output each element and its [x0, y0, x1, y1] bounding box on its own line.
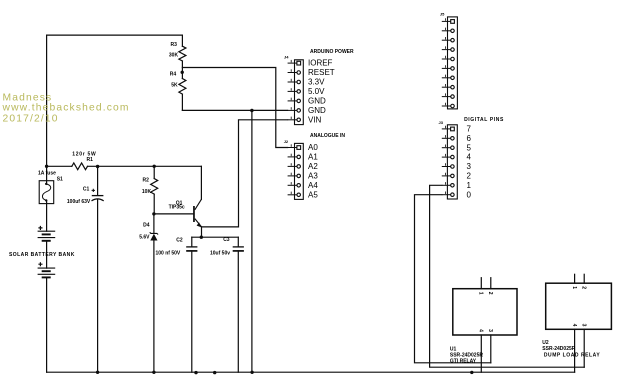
svg-text:C3: C3 [223, 237, 230, 243]
svg-text:2: 2 [581, 286, 587, 289]
svg-text:RESET: RESET [308, 68, 335, 77]
svg-text:GTI RELAY: GTI RELAY [450, 358, 477, 364]
svg-text:J2: J2 [284, 139, 289, 144]
svg-text:0: 0 [467, 190, 472, 199]
svg-text:J5: J5 [440, 12, 445, 17]
svg-text:3: 3 [581, 324, 587, 327]
svg-text:4: 4 [571, 324, 577, 327]
svg-text:C2: C2 [176, 238, 183, 244]
svg-text:A0: A0 [308, 143, 318, 152]
svg-text:7: 7 [467, 125, 472, 134]
svg-text:ANALOGUE IN: ANALOGUE IN [310, 133, 345, 139]
svg-text:4: 4 [478, 329, 484, 332]
svg-text:A4: A4 [308, 181, 318, 190]
svg-text:J4: J4 [284, 55, 289, 60]
svg-text:A1: A1 [308, 153, 318, 162]
svg-text:1: 1 [467, 181, 472, 190]
svg-text:DIGITAL PINS: DIGITAL PINS [464, 117, 504, 123]
svg-text:DUMP LOAD RELAY: DUMP LOAD RELAY [544, 352, 600, 358]
svg-text:R3: R3 [171, 42, 178, 48]
svg-text:R4: R4 [170, 72, 177, 78]
svg-text:VIN: VIN [308, 115, 322, 124]
svg-text:5.0V: 5.0V [308, 87, 325, 96]
svg-text:10K: 10K [142, 189, 152, 195]
svg-text:2: 2 [487, 292, 493, 295]
svg-text:10uf 50v: 10uf 50v [210, 250, 230, 256]
svg-text:1: 1 [571, 286, 577, 289]
svg-text:GND: GND [308, 97, 326, 106]
svg-text:SOLAR BATTERY BANK: SOLAR BATTERY BANK [9, 252, 75, 258]
svg-text:4: 4 [467, 153, 472, 162]
svg-text:GND: GND [308, 106, 326, 115]
svg-text:100uf 63V: 100uf 63V [67, 199, 91, 205]
svg-text:1: 1 [478, 292, 484, 295]
svg-text:ARDUINO POWER: ARDUINO POWER [310, 49, 354, 55]
svg-text:TIP35c: TIP35c [169, 204, 185, 210]
svg-text:A2: A2 [308, 162, 318, 171]
svg-text:IOREF: IOREF [308, 59, 333, 68]
svg-text:100 nf 50V: 100 nf 50V [156, 250, 181, 256]
svg-text:C1: C1 [83, 186, 90, 192]
svg-text:2017/2/10: 2017/2/10 [3, 113, 59, 124]
svg-text:5: 5 [467, 143, 472, 152]
svg-text:A3: A3 [308, 172, 318, 181]
svg-text:1A fuse: 1A fuse [38, 171, 56, 177]
svg-text:3: 3 [467, 162, 472, 171]
svg-text:U2: U2 [542, 340, 549, 346]
svg-text:30K: 30K [169, 53, 179, 59]
svg-text:SSR-24D025R: SSR-24D025R [542, 346, 575, 352]
svg-text:2: 2 [467, 172, 472, 181]
svg-text:R1: R1 [87, 157, 94, 163]
svg-text:6: 6 [467, 134, 472, 143]
svg-text:3: 3 [487, 329, 493, 332]
svg-text:S1: S1 [57, 177, 63, 183]
svg-text:R2: R2 [143, 177, 150, 183]
svg-text:5.6V: 5.6V [139, 235, 150, 241]
svg-text:3.3V: 3.3V [308, 78, 325, 87]
svg-text:www.thebackshed.com: www.thebackshed.com [2, 103, 130, 114]
svg-text:5K: 5K [171, 82, 178, 88]
svg-text:J3: J3 [439, 120, 444, 125]
svg-text:D4: D4 [143, 223, 150, 229]
svg-text:A5: A5 [308, 190, 318, 199]
